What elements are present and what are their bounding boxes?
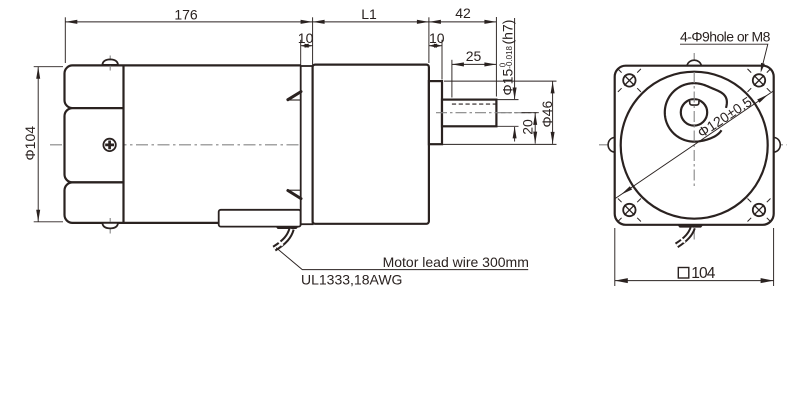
gearbox circle (621, 72, 768, 219)
leader 4-phi9 (680, 44, 768, 70)
wire crimp band (276, 238, 283, 245)
dim square104 (615, 280, 774, 282)
end view lead wires (677, 228, 693, 246)
spring clip bottom (288, 189, 301, 191)
hub spiral arc (665, 83, 727, 141)
keyway (690, 100, 699, 105)
top ear tab (687, 60, 701, 66)
dim L1 (313, 21, 429, 23)
dim phi104 extensions (34, 66, 63, 68)
end view wire crimp band (679, 236, 685, 243)
dim 176 (65, 21, 312, 23)
motor body bottom edge (124, 222, 301, 224)
bottom screw head bump (102, 223, 118, 229)
svg-text:Φ150-0.018(h7): Φ150-0.018(h7) (499, 20, 516, 96)
motor rear end-cap section 3 (65, 182, 124, 223)
shaft axis over shaft (436, 112, 537, 114)
output shaft (442, 100, 496, 127)
output boss (429, 81, 442, 144)
output shaft axis centerline (423, 112, 537, 114)
end view wire grommet (677, 225, 703, 228)
left ear tab (608, 138, 615, 153)
dim 42 (429, 21, 497, 23)
right ear tab (774, 138, 781, 153)
svg-text:20: 20 (519, 119, 535, 135)
terminal box (219, 210, 301, 227)
dim 10 plate (301, 45, 313, 47)
svg-text:42: 42 (455, 5, 471, 21)
svg-text:Φ104: Φ104 (22, 126, 38, 161)
svg-text:176: 176 (174, 6, 198, 22)
bolt hole top-left (623, 74, 635, 86)
motor axis centerline (50, 144, 426, 146)
bolt hole bottom-right (753, 204, 765, 216)
motor body top edge (124, 64, 301, 66)
top screw head bump (102, 59, 118, 65)
square symbol (678, 268, 689, 279)
dim phi46 (552, 81, 554, 143)
motor rear end-cap section 1 (65, 65, 124, 108)
svg-text:UL1333,18AWG: UL1333,18AWG (301, 272, 402, 288)
end view horizontal centerline (599, 144, 787, 146)
top screw centerline (109, 56, 111, 71)
svg-text:L1: L1 (361, 6, 377, 22)
dim 25 (452, 63, 497, 65)
svg-text:4-Φ9hole or M8: 4-Φ9hole or M8 (680, 28, 771, 44)
square flange (615, 66, 774, 225)
svg-text:10: 10 (298, 30, 314, 46)
lead wires (274, 229, 291, 249)
dim square104 extensions (614, 228, 616, 286)
lead wire leader (276, 248, 528, 270)
dim 10 boss (429, 45, 442, 47)
shaft horizontal centerline (652, 112, 726, 114)
gearbox mounting plate (301, 66, 313, 224)
dim phi120 (615, 91, 774, 199)
svg-text:Motor lead wire 300mm: Motor lead wire 300mm (383, 254, 529, 270)
bolt hole top-right (753, 74, 765, 86)
dim phi15 (514, 18, 516, 99)
end view vertical centerline (693, 53, 695, 240)
end-cap right edge (122, 65, 124, 223)
extension lines row2 (300, 40, 302, 66)
center screw head (103, 139, 115, 151)
svg-text:Φ46: Φ46 (539, 101, 555, 128)
vertical centerline over shaft (693, 72, 695, 187)
dim 20 (534, 113, 536, 144)
shaft circle (681, 99, 707, 125)
svg-text:10: 10 (429, 30, 445, 46)
extension lines row1 (64, 17, 66, 63)
dim 20 extension (522, 112, 539, 114)
gearbox body (313, 65, 429, 224)
svg-text:25: 25 (466, 48, 482, 64)
dim phi15 extension lines (496, 99, 518, 101)
wire grommet (276, 227, 299, 229)
keyway hidden line (452, 103, 497, 105)
extension line 25 dim (451, 60, 453, 98)
dim phi46 extensions (444, 80, 557, 82)
motor rear end-cap section 2 (65, 108, 124, 182)
bottom screw centerline (109, 218, 111, 234)
svg-text:104: 104 (691, 265, 715, 282)
dim phi104 (37, 67, 39, 222)
bolt hole bottom-left (623, 204, 635, 216)
spring clip top (288, 99, 301, 101)
